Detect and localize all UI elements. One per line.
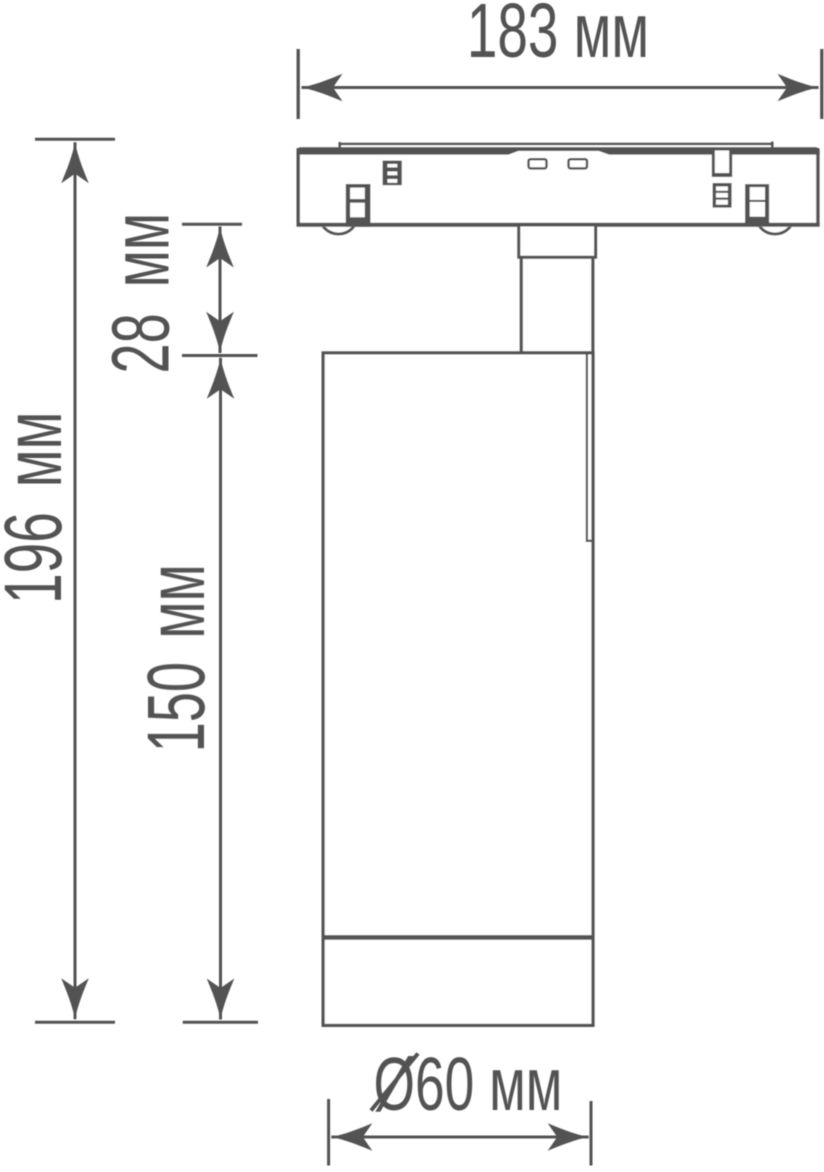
dimension 183mm right extension tick [820, 49, 823, 119]
dimension 196mm line [74, 142, 77, 1019]
track adapter body (white plate) [297, 147, 820, 227]
dimension 150mm bottom arrowhead [207, 979, 235, 1020]
dimension 183mm line [302, 86, 819, 89]
lamp body right seam [587, 353, 593, 541]
dimension 28mm bottom arrowhead [206, 312, 234, 353]
center slot right [569, 159, 588, 168]
track adapter top bar with center recess [297, 147, 820, 154]
stem left edge [520, 257, 523, 353]
dimension 60mm right arrowhead [548, 1123, 589, 1151]
track adapter right edge [816, 148, 819, 227]
dimension 183mm left extension tick [297, 49, 300, 119]
svg-text:183 мм: 183 мм [467, 0, 649, 74]
svg-text:Ø60 мм: Ø60 мм [374, 1042, 563, 1126]
dimension 150mm line [219, 358, 222, 1020]
diameter slash overshoot [371, 1054, 418, 1111]
dimension 196mm bottom arrowhead [61, 978, 89, 1019]
dimension 60mm line [331, 1136, 588, 1139]
dimension 196mm bottom extension tick [35, 1021, 115, 1024]
right contact block (3 slots) [713, 183, 732, 208]
track adapter left edge [297, 148, 300, 227]
stem right edge [591, 257, 594, 353]
right latch block (2 cells) [745, 184, 769, 226]
left contact block (3 slots) [383, 161, 402, 186]
dimension 60mm right extension tick [590, 1101, 593, 1166]
dimension 150mm bottom extension tick [183, 1021, 258, 1024]
track adapter top lip line [339, 143, 774, 145]
dimension 28mm top extension tick [182, 223, 242, 226]
shared extension tick between 28mm and 150mm [182, 354, 258, 357]
dimension 196mm top extension tick [35, 138, 115, 141]
dimension 183mm left arrowhead [302, 74, 343, 102]
lamp body cylinder [323, 353, 593, 1026]
dimension 196mm top arrowhead [61, 142, 89, 183]
track adapter top lip right tick [771, 142, 773, 149]
dimension 60mm left arrowhead [331, 1123, 372, 1151]
track adapter top lip left tick [339, 142, 341, 148]
right track roller wheel [756, 195, 795, 234]
track adapter bottom bar [297, 223, 820, 227]
stem collar [519, 225, 596, 257]
dimension 28mm top arrowhead [206, 227, 234, 268]
center slot left [529, 159, 547, 168]
dimension 150mm top arrowhead [207, 358, 235, 399]
right bar notch [712, 151, 732, 178]
svg-text:28 мм: 28 мм [94, 213, 186, 374]
left latch block (2 cells) [346, 184, 371, 227]
lamp body bottom cap separator [323, 935, 593, 940]
svg-text:196 мм: 196 мм [0, 412, 78, 604]
dimension 183mm right arrowhead [778, 74, 819, 102]
svg-text:150 мм: 150 мм [130, 564, 222, 752]
left track roller wheel [319, 195, 358, 234]
dimension 28mm line [219, 227, 222, 354]
dimension 60mm left extension tick [327, 1099, 330, 1166]
